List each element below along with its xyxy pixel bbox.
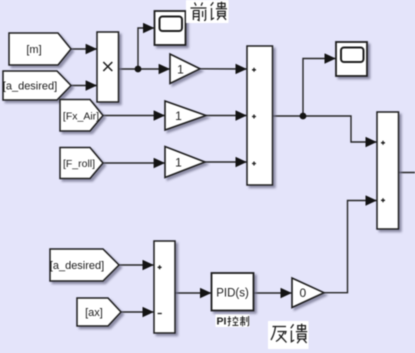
svg-text:[ax]: [ax] xyxy=(85,307,103,319)
Sum block A1 xyxy=(247,46,273,185)
Sum block A2 xyxy=(377,112,399,229)
From block [Fx_Air] xyxy=(60,100,103,132)
wire gain G0 up to sum A2 second input xyxy=(324,201,376,293)
wire branch up to scope S2 xyxy=(303,59,335,117)
sum A3 plus sign port 1 xyxy=(158,265,162,269)
Gain G3 (value 1) xyxy=(165,147,205,178)
junction node after product xyxy=(135,66,142,73)
sum A1 plus sign port 3 xyxy=(252,162,256,166)
svg-text:[m]: [m] xyxy=(26,44,41,56)
wire sum A1 output to sum A2 first input xyxy=(273,116,377,142)
sum A1 plus sign port 2 xyxy=(252,115,256,119)
wire gain G3 to sum A1 xyxy=(205,161,246,163)
svg-text:[a_desired]: [a_desired] xyxy=(3,81,57,93)
glyph 反 xyxy=(271,327,287,343)
wire branch up to scope S1 xyxy=(138,28,154,69)
wire [F_roll] to gain G3 xyxy=(103,162,165,164)
glyph 馈 xyxy=(291,324,307,344)
svg-text:PID(s): PID(s) xyxy=(216,287,249,299)
label 反馈 (feedback) xyxy=(268,321,309,349)
wire [Fx_Air] to gain G2 xyxy=(103,115,165,117)
wire [a_desired] to product xyxy=(71,85,97,87)
sum A2 plus sign port 1 xyxy=(381,141,385,145)
svg-text:1: 1 xyxy=(177,62,184,76)
sum A1 plus sign port 1 xyxy=(252,68,256,72)
From block [m] xyxy=(9,33,71,65)
svg-text:0: 0 xyxy=(299,286,306,300)
From block [F_roll] xyxy=(60,148,103,179)
Gain G2 (value 1) xyxy=(165,101,206,130)
sum A2 plus sign port 2 xyxy=(381,198,385,202)
From block [a_desired] (top) xyxy=(3,71,71,100)
svg-text:1: 1 xyxy=(175,109,182,123)
junction node after sum A1 xyxy=(300,113,307,120)
PID controller block xyxy=(212,273,254,311)
From block [a_desired] (bottom) xyxy=(50,249,119,281)
svg-text:[Fx_Air]: [Fx_Air] xyxy=(63,111,99,123)
wire [ax] to sum A3 minus input xyxy=(121,311,153,313)
wire product output to gain G1 xyxy=(119,68,170,70)
Product block X xyxy=(97,32,119,102)
svg-text:1: 1 xyxy=(175,155,182,169)
glyph 制 xyxy=(240,316,249,326)
glyph 控 xyxy=(228,316,239,325)
Scope S1 xyxy=(155,11,186,45)
sum A3 minus sign port 2 xyxy=(158,313,162,315)
glyph 馈 xyxy=(211,2,227,20)
Gain G1 (value 1) xyxy=(170,54,200,84)
Sum block A3 (plus/minus) xyxy=(154,241,175,333)
Gain G0 (value 0) xyxy=(292,278,324,308)
wire [m] to product xyxy=(71,48,97,50)
glyph 前 xyxy=(191,3,207,21)
Scope S2 xyxy=(336,42,367,76)
wire PID to gain G0 xyxy=(254,292,292,294)
wire [a_desired] to sum A3 xyxy=(119,264,153,266)
label 前馈 (feedforward) xyxy=(186,0,229,23)
wire sum A3 to PID controller xyxy=(175,292,211,294)
label PI控制 (PI control) xyxy=(216,315,250,328)
wire sum A2 output to right edge xyxy=(399,172,415,174)
svg-text:PI: PI xyxy=(217,316,227,328)
wire gain G1 to sum A1 xyxy=(200,68,246,70)
multiply symbol xyxy=(103,62,112,71)
svg-text:[a_desired]: [a_desired] xyxy=(50,260,104,272)
svg-text:[F_roll]: [F_roll] xyxy=(63,158,95,170)
wire gain G2 to sum A1 xyxy=(206,115,246,117)
From block [ax] xyxy=(77,298,121,326)
